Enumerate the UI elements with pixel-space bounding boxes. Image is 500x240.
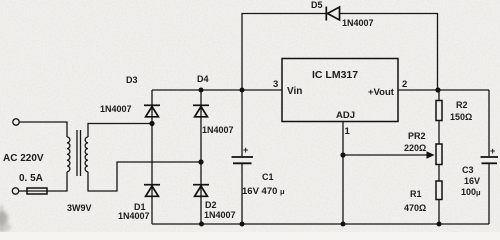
node R1 bottom rail junction <box>437 222 442 227</box>
wire secondary top to bridge <box>88 124 152 138</box>
resistor R1 <box>436 181 442 200</box>
smudge bottom-left <box>0 205 11 232</box>
node secondary-bottom junction <box>198 159 203 164</box>
capacitor C1 <box>232 157 254 163</box>
wire R2 top <box>438 90 440 101</box>
svg-text:1N4007: 1N4007 <box>342 18 374 28</box>
diode D2 <box>193 185 209 197</box>
svg-text:R2: R2 <box>456 100 468 110</box>
wire C3 column lower <box>488 164 490 224</box>
transformer T1 secondary winding <box>85 137 88 172</box>
svg-text:PR2: PR2 <box>408 131 426 141</box>
resistor R2 <box>436 101 442 121</box>
svg-text:D3: D3 <box>126 75 138 85</box>
node D4 top rail junction <box>199 88 204 93</box>
svg-text:100μ: 100μ <box>461 187 481 197</box>
node ADJ junction <box>340 152 345 157</box>
svg-text:ADJ: ADJ <box>336 110 355 121</box>
svg-text:16V 470 μ: 16V 470 μ <box>242 186 285 197</box>
svg-text:16V: 16V <box>464 176 480 186</box>
diode D4 <box>193 105 209 117</box>
wire C3 column upper <box>488 90 490 156</box>
PR2 wiper arrow <box>427 151 435 159</box>
wire D5 loop right <box>340 14 438 91</box>
svg-text:R1: R1 <box>410 189 422 199</box>
top rail <box>152 89 282 91</box>
diode D3 <box>144 105 160 117</box>
svg-text:AC 220V: AC 220V <box>3 153 44 164</box>
wire ADJ to PR2 wiper <box>343 154 428 156</box>
op-amp U1 IC LM317 box <box>282 59 398 122</box>
wire PR2 to R1 <box>438 165 440 182</box>
svg-text:D4: D4 <box>197 74 209 84</box>
node C1 top rail junction <box>240 88 245 93</box>
svg-text:+: + <box>490 146 495 156</box>
transformer core <box>76 130 78 176</box>
node ADJ bottom rail junction <box>341 222 346 227</box>
node D2 bottom rail junction <box>199 222 204 227</box>
diode D1 <box>144 185 160 197</box>
svg-text:1N4007: 1N4007 <box>204 210 236 220</box>
left bridge column <box>151 90 153 224</box>
wire Vout rail <box>398 89 489 91</box>
wire R2 to PR2 <box>438 121 440 145</box>
svg-text:D2: D2 <box>205 200 217 210</box>
wire C1 column upper <box>241 90 243 156</box>
svg-text:IC LM317: IC LM317 <box>312 69 358 81</box>
svg-text:+: + <box>243 145 248 155</box>
wire R1 bottom <box>438 200 440 225</box>
svg-text:C3: C3 <box>462 165 474 175</box>
node C1 bottom rail junction <box>240 222 245 227</box>
fuse F1 0.5A <box>27 188 47 194</box>
svg-text:C1: C1 <box>262 172 274 182</box>
node secondary-top junction <box>149 121 154 126</box>
svg-text:1N4007: 1N4007 <box>100 104 132 114</box>
wire C1 column lower <box>241 164 243 224</box>
potentiometer PR2 <box>436 144 442 165</box>
svg-text:0. 5A: 0. 5A <box>19 173 43 184</box>
svg-text:3W9V: 3W9V <box>67 203 92 213</box>
svg-text:220Ω: 220Ω <box>404 143 426 153</box>
svg-text:1N4007: 1N4007 <box>118 211 150 221</box>
wire fuse to terminal <box>19 190 27 192</box>
transformer T1 primary winding <box>67 137 70 172</box>
svg-text:1: 1 <box>345 126 351 137</box>
wire secondary bottom to bridge <box>88 162 201 191</box>
wire primary bottom <box>47 172 67 191</box>
svg-text:1N4007: 1N4007 <box>202 125 234 135</box>
node Vout/R2 junction <box>435 87 440 92</box>
svg-text:D5: D5 <box>311 0 323 10</box>
svg-text:3: 3 <box>273 79 278 90</box>
bottom rail <box>152 223 489 225</box>
wire primary top <box>19 122 67 137</box>
svg-text:470Ω: 470Ω <box>404 203 426 213</box>
svg-text:150Ω: 150Ω <box>450 112 472 122</box>
capacitor C3 <box>481 157 499 163</box>
right bridge column <box>200 90 202 224</box>
diode D5 <box>326 7 339 21</box>
terminal top <box>13 119 19 125</box>
svg-text:+Vout: +Vout <box>368 87 395 98</box>
terminal bottom <box>12 188 18 194</box>
svg-text:2: 2 <box>402 79 407 90</box>
wire D5 loop left <box>242 14 326 91</box>
svg-text:Vin: Vin <box>287 86 302 97</box>
wire ADJ column <box>342 122 344 225</box>
